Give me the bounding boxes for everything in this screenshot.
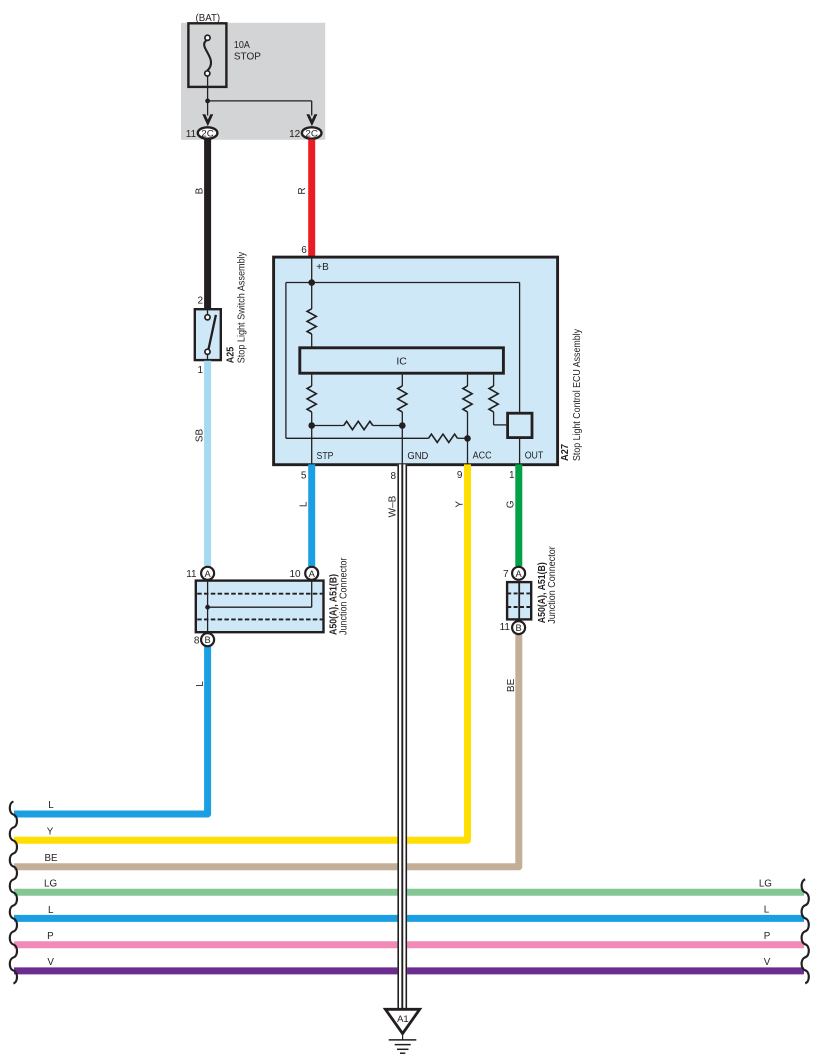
svg-text:6: 6	[301, 245, 307, 256]
svg-text:5: 5	[301, 470, 307, 481]
svg-text:V: V	[47, 957, 54, 968]
svg-text:STP: STP	[317, 451, 334, 462]
svg-text:8: 8	[390, 471, 396, 482]
svg-text:10: 10	[289, 569, 301, 580]
svg-text:9: 9	[457, 470, 463, 481]
svg-text:Junction Connector: Junction Connector	[339, 557, 350, 635]
svg-text:IC: IC	[396, 355, 407, 367]
svg-text:2C: 2C	[305, 128, 318, 138]
svg-text:LG: LG	[44, 879, 57, 890]
svg-text:Junction Connector: Junction Connector	[547, 546, 558, 624]
svg-text:B: B	[515, 623, 521, 633]
svg-text:10A: 10A	[234, 40, 250, 51]
svg-text:R: R	[297, 187, 308, 194]
svg-text:P: P	[764, 931, 771, 942]
svg-text:(BAT): (BAT)	[196, 13, 221, 24]
svg-text:A: A	[204, 569, 211, 579]
svg-text:OUT: OUT	[525, 451, 544, 462]
svg-text:11: 11	[186, 569, 197, 580]
svg-text:SB: SB	[194, 429, 205, 443]
svg-text:Stop Light Control ECU Assembl: Stop Light Control ECU Assembly	[572, 328, 583, 461]
svg-text:G: G	[506, 500, 517, 508]
svg-text:B: B	[194, 187, 205, 194]
svg-text:B: B	[204, 635, 210, 645]
svg-text:BE: BE	[44, 853, 58, 864]
svg-text:12: 12	[289, 129, 301, 140]
svg-text:Y: Y	[454, 501, 465, 508]
svg-text:BE: BE	[506, 678, 517, 692]
svg-text:L: L	[764, 905, 770, 916]
svg-text:A: A	[309, 569, 316, 579]
svg-text:P: P	[47, 931, 54, 942]
svg-text:A27: A27	[559, 444, 571, 461]
svg-text:STOP: STOP	[234, 52, 261, 63]
svg-text:ACC: ACC	[473, 451, 492, 462]
svg-text:L: L	[195, 681, 206, 687]
svg-text:A25: A25	[225, 347, 237, 364]
svg-text:1: 1	[509, 470, 515, 481]
svg-text:Stop Light Switch Assembly: Stop Light Switch Assembly	[236, 251, 247, 363]
svg-text:1: 1	[197, 365, 203, 376]
svg-text:L: L	[48, 905, 54, 916]
svg-text:V: V	[764, 957, 771, 968]
svg-text:Y: Y	[47, 826, 54, 837]
svg-text:8: 8	[194, 636, 200, 647]
svg-text:7: 7	[503, 569, 509, 580]
svg-text:+B: +B	[316, 262, 329, 273]
svg-text:A1: A1	[397, 1014, 409, 1025]
svg-text:A: A	[515, 569, 522, 579]
svg-text:11: 11	[186, 129, 197, 140]
svg-text:L: L	[298, 501, 309, 507]
svg-text:LG: LG	[759, 878, 772, 889]
svg-text:L: L	[48, 800, 54, 811]
svg-text:11: 11	[500, 622, 511, 633]
svg-text:2C: 2C	[201, 128, 214, 138]
svg-text:2: 2	[197, 295, 203, 306]
svg-text:W–B: W–B	[388, 495, 399, 517]
svg-text:GND: GND	[407, 451, 428, 462]
